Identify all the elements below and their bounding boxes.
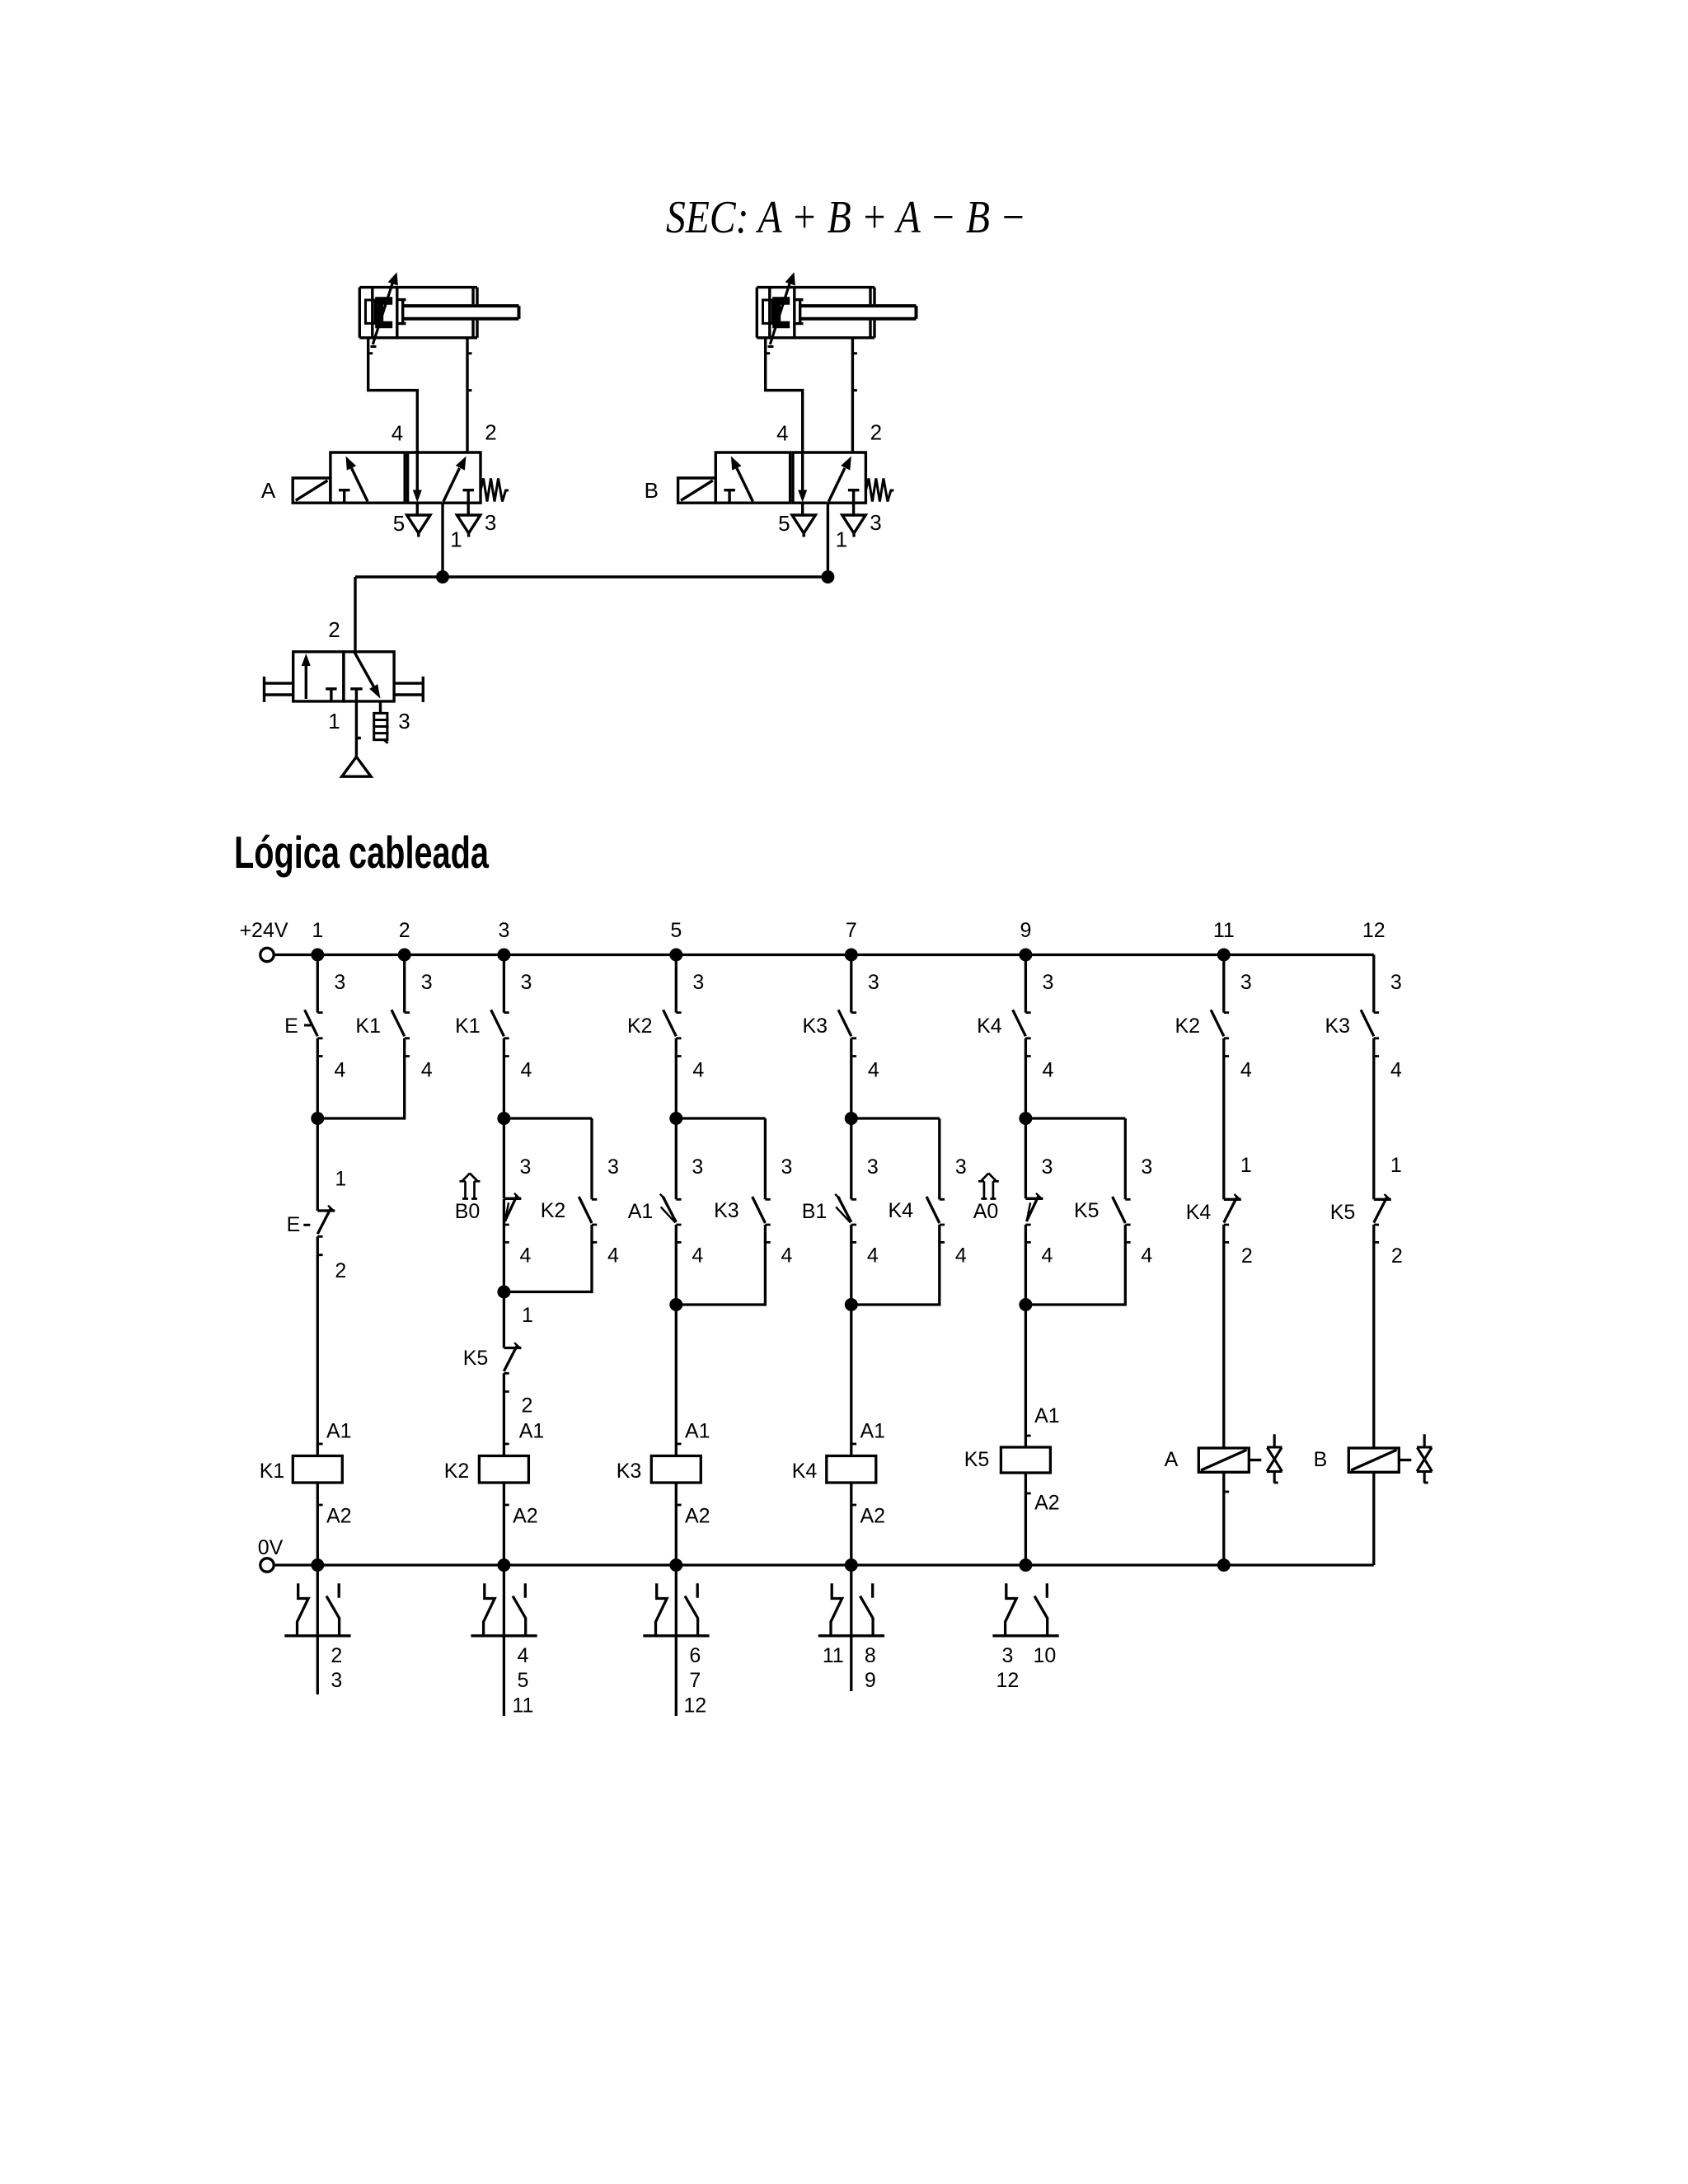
wire: coil K4 to 0V rail	[851, 1483, 856, 1565]
relay contact K3 (NO), rung 12	[1361, 955, 1379, 1057]
wire: manifold down to 3/2 valve port 2	[354, 577, 356, 652]
limit switch A1 (NO), rung 5	[660, 1118, 682, 1242]
label K3 with terminals 3-4, rung at x=1033	[803, 971, 879, 1082]
svg-text:5: 5	[670, 919, 682, 942]
label K1 with terminals 3-4, rung at x=611	[455, 971, 532, 1082]
svg-text:6: 6	[689, 1644, 701, 1667]
relay contact K4 (NO) on parallel branch	[926, 1118, 945, 1242]
svg-text:5: 5	[517, 1669, 528, 1692]
wire: branch K5 back to main rung	[1025, 1225, 1125, 1305]
svg-text:Lógica cableada: Lógica cableada	[234, 827, 489, 878]
relay contact K2 (NO) on parallel branch	[579, 1118, 597, 1242]
svg-text:4: 4	[955, 1244, 967, 1268]
svg-text:4: 4	[1141, 1244, 1152, 1268]
svg-text:K1: K1	[355, 1015, 381, 1038]
relay coil K2	[479, 1456, 528, 1483]
svg-text:4: 4	[421, 1059, 433, 1082]
junction: +24V rail node 3	[497, 949, 510, 962]
heading: Logica cableada	[234, 827, 489, 878]
wire: rung 2 contact down and across to rung 1 (self-holding branch K1)	[317, 1038, 404, 1118]
svg-text:K4: K4	[792, 1460, 818, 1483]
svg-text:3: 3	[331, 1669, 342, 1692]
svg-text:3: 3	[520, 971, 532, 994]
label 0V	[258, 1536, 284, 1559]
svg-text:4: 4	[334, 1059, 345, 1082]
wire: rung 7 contact to branch node	[850, 1038, 852, 1118]
svg-text:3: 3	[485, 510, 496, 535]
svg-text:3: 3	[1390, 971, 1402, 994]
svg-text:K5: K5	[964, 1448, 990, 1471]
junction: +24V rail node 2	[398, 949, 411, 962]
cross-reference rung numbers for K2	[512, 1644, 533, 1717]
wire: rung 3 contact to branch node	[503, 1038, 505, 1118]
svg-text:12: 12	[683, 1694, 706, 1717]
wire: branch K3 back to main rung	[676, 1225, 765, 1305]
svg-text:3: 3	[781, 1155, 792, 1179]
wire: K5 interlock to coil K2	[504, 1373, 509, 1455]
svg-text:4: 4	[1042, 1059, 1053, 1082]
svg-text:2: 2	[331, 1644, 342, 1667]
svg-text:+24V: +24V	[239, 919, 288, 942]
junction: rung 5 branch node	[669, 1112, 682, 1125]
wire: rung 9 join to coil K5	[1025, 1225, 1030, 1447]
wire: coil K5 to 0V rail	[1025, 1473, 1030, 1565]
svg-text:4: 4	[868, 1059, 879, 1082]
contact cross-reference table for relay K2	[471, 1565, 537, 1716]
svg-text:5: 5	[778, 511, 790, 536]
wire: branch takeoff rung 7	[851, 1117, 940, 1119]
svg-text:7: 7	[689, 1669, 701, 1692]
label A1 with terminals 3-4	[628, 1155, 704, 1268]
wire: coil K1 to 0V rail	[317, 1483, 322, 1565]
svg-text:3: 3	[870, 510, 881, 535]
svg-text:K5: K5	[1074, 1199, 1100, 1222]
svg-text:9: 9	[865, 1669, 876, 1692]
svg-text:2: 2	[485, 420, 496, 445]
svg-text:2: 2	[335, 1259, 346, 1282]
relay contact K3 (NO) on parallel branch	[753, 1118, 771, 1242]
label K1 with terminals 3-4, rung at x=491	[355, 971, 432, 1082]
wire: rung 1 stop button to coil K1	[317, 1236, 322, 1455]
svg-text:B: B	[1314, 1448, 1328, 1471]
svg-text:3: 3	[334, 971, 345, 994]
wire: rung 5 join to coil K3	[676, 1225, 681, 1456]
wire: cylinder A left port to valve A port 4	[368, 338, 418, 452]
valve A: 5/2-way solenoid valve with spring return	[293, 452, 509, 537]
svg-text:K2: K2	[627, 1015, 653, 1038]
valve V3 port labels 2 1 3	[328, 617, 410, 733]
svg-text:1: 1	[328, 709, 340, 733]
actuation arrow symbol for B0	[460, 1174, 481, 1199]
junction: +24V rail node 1	[311, 949, 324, 962]
svg-text:3: 3	[867, 1155, 879, 1179]
label +24V	[239, 919, 288, 942]
label K2 with terminals 3-4, rung at x=1485	[1175, 971, 1252, 1082]
+24V supply rail	[260, 948, 1374, 961]
svg-text:2: 2	[328, 617, 340, 642]
svg-text:A1: A1	[685, 1420, 710, 1443]
junction: manifold at valve A port 1	[436, 570, 449, 583]
pushbutton E (stop, NC), rung 1	[303, 1118, 335, 1255]
label B (valve B solenoid)	[645, 478, 659, 503]
svg-text:K1: K1	[455, 1015, 481, 1038]
relay contact K1 (NO), rung 2	[392, 955, 410, 1057]
limit switch B0 (NC held, arrow actuated), rung 3	[504, 1118, 521, 1242]
label K4 with terminals 3-4 (branch)	[889, 1155, 967, 1268]
label K4 with terminals 1-2	[1186, 1154, 1253, 1268]
svg-text:4: 4	[1041, 1244, 1053, 1268]
svg-text:A2: A2	[513, 1505, 538, 1528]
cylinder B (double-acting, adjustable cushioning)	[757, 272, 916, 346]
label K2 with terminals 3-4 (branch)	[541, 1155, 619, 1268]
svg-text:11: 11	[1213, 919, 1235, 942]
junction: branch K3 lower join	[669, 1298, 682, 1311]
svg-text:3: 3	[1041, 1155, 1053, 1179]
svg-text:1: 1	[312, 919, 323, 942]
svg-text:B: B	[645, 478, 659, 503]
wire: coil K2 to 0V rail	[504, 1483, 509, 1565]
svg-text:1: 1	[450, 527, 462, 552]
label A (solenoid)	[1165, 1448, 1179, 1471]
relay contact K5 (NC), rung 12	[1374, 1194, 1391, 1242]
wire: coil K3 to 0V rail	[676, 1483, 681, 1565]
junction: +24V rail node 11	[1217, 949, 1231, 962]
svg-text:A: A	[1165, 1448, 1179, 1471]
pushbutton E (start), rung 1	[304, 955, 323, 1057]
wire: rung 11 to solenoid A	[1222, 1225, 1225, 1448]
wire: cylinder B right port to valve B port 2	[852, 338, 857, 452]
relay contact K1 (NO), rung 3	[491, 955, 509, 1057]
wire: rung 1 contact to node dot	[316, 1038, 319, 1118]
svg-text:2: 2	[399, 919, 410, 942]
exhaust muffler on port 3	[374, 701, 389, 743]
svg-text:3: 3	[421, 971, 433, 994]
wire: branch takeoff rung 9	[1025, 1117, 1125, 1119]
svg-text:8: 8	[865, 1644, 876, 1667]
junction: manifold at valve B port 1	[821, 570, 834, 583]
svg-text:0V: 0V	[258, 1536, 284, 1559]
svg-text:2: 2	[870, 420, 882, 445]
compressed air source (port 1 supply triangle)	[342, 701, 371, 776]
svg-text:12: 12	[996, 1669, 1019, 1692]
svg-text:A0: A0	[973, 1200, 999, 1223]
wire: rung 12 to solenoid B	[1372, 1225, 1375, 1448]
wire: branch K2 back to main rung	[504, 1225, 592, 1292]
svg-text:1: 1	[1390, 1154, 1402, 1177]
junction: 0V rail node 11	[1217, 1558, 1231, 1572]
junction: branch K2 lower join	[497, 1286, 510, 1299]
junction: 0V rail node 1	[311, 1558, 324, 1572]
junction: +24V rail node 5	[669, 949, 682, 962]
svg-text:A2: A2	[1034, 1492, 1060, 1515]
label K3 coil with terminals A1 A2	[617, 1420, 710, 1528]
label K3 with terminals 3-4, rung at x=1667	[1325, 971, 1402, 1082]
contact cross-reference table for relay K3	[643, 1565, 709, 1716]
cross-reference rung numbers for K5	[996, 1644, 1056, 1692]
svg-text:B0: B0	[455, 1200, 481, 1223]
svg-text:K4: K4	[977, 1015, 1002, 1038]
junction: rung 3 branch node	[497, 1112, 510, 1125]
svg-text:3: 3	[398, 709, 410, 733]
valve B: 5/2-way solenoid valve with spring return	[678, 452, 894, 537]
rung number labels 1 2 3 5 7 9 11 12	[312, 919, 1385, 942]
svg-text:SEC: A + B + A − B −: SEC: A + B + A − B −	[666, 192, 1026, 243]
svg-text:K3: K3	[714, 1199, 739, 1222]
svg-text:3: 3	[498, 919, 509, 942]
svg-text:3: 3	[692, 971, 704, 994]
svg-text:12: 12	[1362, 919, 1386, 942]
relay contact K3 (NO), rung 7	[838, 955, 856, 1057]
valve V3: 3/2-way valve (air supply shut-off)	[265, 652, 424, 702]
valve B port labels 4 2 5 3 1	[776, 420, 882, 552]
wire: branch K4 back to main rung	[851, 1225, 940, 1305]
svg-text:11: 11	[512, 1694, 533, 1717]
label K2 coil with terminals A1 A2	[444, 1420, 545, 1528]
limit switch A0 (NC held, arrow actuated), rung 9	[1025, 1118, 1043, 1242]
label K2 with terminals 3-4, rung at x=820	[627, 971, 704, 1082]
wire: rung 7 join to coil K4	[851, 1225, 856, 1456]
junction: 0V rail node 5	[669, 1558, 682, 1572]
svg-text:E: E	[284, 1015, 298, 1038]
relay contact K4 (NC), rung 11	[1224, 1194, 1241, 1242]
label K5 coil with terminals A1 A2	[964, 1404, 1060, 1515]
svg-text:A1: A1	[628, 1200, 654, 1223]
contact cross-reference table for relay K1	[284, 1565, 350, 1694]
svg-text:2: 2	[521, 1394, 532, 1418]
relay contact K4 (NO), rung 9	[1013, 955, 1031, 1057]
label B0 with terminals 3-4	[455, 1155, 532, 1268]
svg-text:A2: A2	[860, 1505, 886, 1528]
wire: cylinder A right port to valve A port 2	[467, 338, 472, 452]
0V return rail	[260, 1558, 1374, 1572]
svg-text:7: 7	[846, 919, 857, 942]
svg-text:K2: K2	[1175, 1015, 1201, 1038]
label K5 with terminals 1-2 (interlock)	[463, 1304, 533, 1418]
relay coil K1	[293, 1456, 342, 1483]
junction: +24V rail node 7	[845, 949, 858, 962]
label K4 coil with terminals A1 A2	[792, 1420, 885, 1528]
wire: branch takeoff rung 5	[676, 1117, 765, 1119]
relay coil K4	[827, 1456, 876, 1483]
svg-text:4: 4	[692, 1059, 704, 1082]
svg-text:4: 4	[517, 1644, 528, 1667]
label K4 with terminals 3-4, rung at x=1244	[977, 971, 1053, 1082]
svg-text:4: 4	[1390, 1059, 1402, 1082]
relay contact K5 (NO) on parallel branch	[1113, 1118, 1131, 1242]
junction: rung 7 branch node	[845, 1112, 858, 1125]
cylinder A (double-acting, adjustable cushioning)	[359, 272, 518, 346]
wire: solenoid A to 0V rail	[1224, 1472, 1229, 1565]
svg-text:10: 10	[1033, 1644, 1056, 1667]
junction: rung 9 branch node	[1019, 1112, 1032, 1125]
wire: rung 11 between contacts	[1222, 1038, 1225, 1200]
junction: rung 1 / rung 2 join	[311, 1112, 324, 1125]
svg-text:3: 3	[1141, 1155, 1152, 1179]
label K5 with terminals 3-4 (branch)	[1074, 1155, 1152, 1268]
label K5 with terminals 1-2	[1330, 1154, 1403, 1268]
svg-text:11: 11	[823, 1644, 844, 1667]
svg-text:A1: A1	[326, 1420, 352, 1443]
svg-text:2: 2	[1241, 1244, 1253, 1268]
svg-text:B1: B1	[802, 1200, 828, 1223]
title: sequence equation SEC:A+B+A-B-	[666, 192, 1026, 243]
svg-text:A: A	[261, 478, 276, 503]
svg-text:4: 4	[392, 421, 403, 446]
junction: 0V rail node 3	[497, 1558, 510, 1572]
solenoid valve coil B (with valve symbol)	[1348, 1434, 1432, 1483]
wire: cylinder B left port to valve B port 4	[766, 338, 803, 452]
label K3 with terminals 3-4 (branch)	[714, 1155, 792, 1268]
svg-text:3: 3	[607, 1155, 619, 1179]
junction: branch K4 lower join	[845, 1298, 858, 1311]
label K1 coil with terminals A1 A2	[260, 1420, 352, 1528]
wire: rung 12 between contacts	[1372, 1038, 1375, 1200]
svg-text:A1: A1	[1034, 1404, 1060, 1427]
svg-text:A1: A1	[860, 1420, 886, 1443]
svg-text:1: 1	[836, 527, 847, 552]
svg-text:3: 3	[1001, 1644, 1013, 1667]
junction: branch K5 lower join	[1019, 1298, 1032, 1311]
svg-text:3: 3	[1240, 971, 1252, 994]
relay contact K2 (NO), rung 11	[1211, 955, 1229, 1057]
wire: rung 5 contact to branch node	[675, 1038, 678, 1118]
wire: supply manifold line	[355, 575, 828, 578]
svg-text:K2: K2	[444, 1460, 470, 1483]
svg-text:K2: K2	[541, 1199, 566, 1222]
svg-text:K5: K5	[1330, 1201, 1356, 1224]
svg-text:4: 4	[692, 1244, 703, 1268]
svg-text:4: 4	[607, 1244, 619, 1268]
relay coil K5	[1001, 1447, 1050, 1473]
svg-text:A2: A2	[326, 1505, 352, 1528]
svg-text:3: 3	[692, 1155, 703, 1179]
svg-text:4: 4	[519, 1244, 531, 1268]
svg-text:K1: K1	[260, 1460, 285, 1483]
svg-text:1: 1	[1240, 1154, 1252, 1177]
svg-text:3: 3	[955, 1155, 967, 1179]
svg-text:K3: K3	[617, 1460, 642, 1483]
svg-text:3: 3	[1042, 971, 1053, 994]
relay contact K5 (NC interlock), rung 3	[504, 1292, 521, 1392]
svg-text:K5: K5	[463, 1347, 489, 1370]
relay coil K3	[651, 1456, 701, 1483]
svg-text:E: E	[287, 1213, 301, 1236]
contact cross-reference table for relay K4	[818, 1565, 884, 1691]
label E with terminals 1-2 (stop button)	[287, 1168, 347, 1283]
svg-text:A1: A1	[519, 1420, 545, 1443]
svg-text:9: 9	[1020, 919, 1031, 942]
relay contact K2 (NO), rung 5	[663, 955, 682, 1057]
junction: +24V rail node 9	[1019, 949, 1032, 962]
contact cross-reference table for relay K5	[992, 1583, 1058, 1636]
svg-text:4: 4	[776, 421, 788, 446]
svg-text:3: 3	[519, 1155, 531, 1179]
svg-text:4: 4	[781, 1244, 792, 1268]
svg-text:1: 1	[335, 1168, 346, 1191]
wire: branch takeoff rung 3	[504, 1117, 592, 1119]
label B (solenoid)	[1314, 1448, 1328, 1471]
svg-text:K3: K3	[1325, 1015, 1351, 1038]
svg-text:4: 4	[1240, 1059, 1252, 1082]
svg-text:K4: K4	[889, 1199, 914, 1222]
wire: rung 3 node to interlock contact	[503, 1199, 505, 1292]
wire: solenoid B to 0V rail corner	[1372, 1472, 1375, 1565]
svg-text:A2: A2	[685, 1505, 710, 1528]
actuation arrow symbol for A0	[978, 1174, 999, 1199]
svg-text:2: 2	[1391, 1244, 1403, 1268]
cross-reference rung numbers for K1	[331, 1644, 342, 1692]
svg-text:3: 3	[868, 971, 879, 994]
svg-text:4: 4	[520, 1059, 532, 1082]
limit switch B1 (NO), rung 7	[835, 1118, 856, 1242]
solenoid valve coil A (with valve symbol)	[1198, 1434, 1282, 1483]
cross-reference rung numbers for K4	[823, 1644, 876, 1692]
junction: 0V rail node 7	[845, 1558, 858, 1572]
svg-text:5: 5	[393, 511, 405, 536]
wire: rung 9 contact to branch node	[1025, 1038, 1027, 1118]
label A0 with terminals 3-4	[973, 1155, 1053, 1268]
svg-text:4: 4	[867, 1244, 879, 1268]
cross-reference rung numbers for K3	[683, 1644, 706, 1717]
svg-text:K3: K3	[803, 1015, 828, 1038]
wire: valve A port 1 down to supply manifold	[441, 503, 443, 577]
junction: 0V rail node 9	[1019, 1558, 1032, 1572]
svg-text:K4: K4	[1186, 1201, 1212, 1224]
label B1 with terminals 3-4	[802, 1155, 879, 1268]
wire: valve B port 1 down to supply manifold	[827, 503, 829, 577]
label A (valve A solenoid)	[261, 478, 276, 503]
valve A port labels 4 2 5 3 1	[392, 420, 497, 552]
label E with terminals 3-4, rung at x=385	[284, 971, 345, 1082]
svg-text:1: 1	[522, 1304, 533, 1327]
